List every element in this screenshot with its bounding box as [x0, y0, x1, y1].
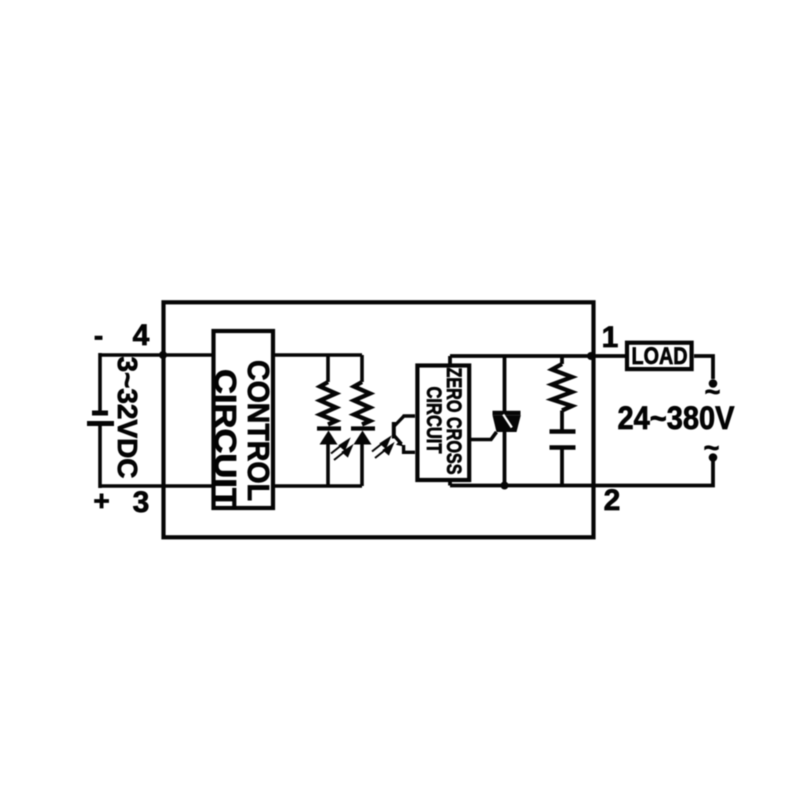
- phototransistor Q1 emitter arrow: [396, 440, 404, 446]
- LED D1 light arrows: [331, 440, 352, 460]
- battery B1 plate short: [92, 411, 108, 416]
- battery B1 lead bottom: [98, 425, 102, 488]
- svg-text:4: 4: [133, 319, 150, 352]
- svg-text:+: +: [93, 485, 109, 516]
- node wire4 enclosure crossing: [159, 351, 167, 359]
- triac Q2 gate wire: [470, 432, 497, 440]
- svg-text:24~380V: 24~380V: [618, 400, 736, 436]
- control circuit block U1: [208, 331, 276, 509]
- SSR enclosure box: [164, 302, 594, 537]
- LED D1: [317, 429, 341, 445]
- AC terminal bottom dot: [709, 453, 718, 462]
- wire output terminal 1 (top AC rail): [450, 354, 625, 358]
- zero cross block U2: [417, 366, 469, 481]
- LED D2: [351, 429, 375, 445]
- wire AC bottom terminal to wire 2: [591, 458, 713, 486]
- svg-text:CIRCUIT: CIRCUIT: [422, 387, 445, 454]
- svg-text:CONTROL: CONTROL: [241, 360, 276, 501]
- svg-text:LOAD: LOAD: [632, 343, 688, 370]
- svg-text:CIRCUIT: CIRCUIT: [208, 369, 243, 509]
- triac Q2: [493, 356, 521, 486]
- wire load to AC top terminal: [694, 356, 713, 379]
- battery B1 lead top: [98, 353, 102, 411]
- AC terminal top dot: [709, 379, 718, 388]
- snubber resistor R3: [552, 356, 572, 430]
- wire output terminal 2 (bottom AC rail): [450, 484, 593, 488]
- svg-text:1: 1: [602, 321, 619, 354]
- battery B1 plate long: [87, 421, 114, 426]
- resistor R2 (right LED branch): [354, 355, 370, 486]
- node triac bottom junction: [501, 482, 509, 490]
- wire zero-cross branch: [448, 356, 452, 486]
- load box: [627, 343, 692, 371]
- wire input terminal 3 (bottom DC rail): [100, 484, 362, 488]
- svg-text:3: 3: [133, 486, 150, 519]
- phototransistor Q1: [394, 416, 415, 452]
- resistor R1 (left LED branch): [320, 355, 336, 486]
- snubber capacitor C1: [550, 432, 576, 487]
- LED D2 light arrows: [372, 438, 393, 458]
- svg-text:3~32VDC: 3~32VDC: [112, 357, 143, 479]
- svg-text:2: 2: [604, 484, 621, 517]
- svg-text:-: -: [94, 320, 103, 351]
- node terminal 1 junction: [587, 352, 595, 360]
- wire input terminal 4 (top DC rail): [100, 353, 362, 357]
